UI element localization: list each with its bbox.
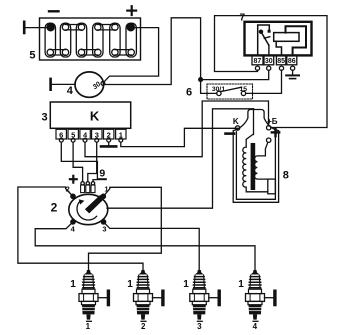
relay terminal circle 87 (255, 66, 259, 70)
svg-text:K: K (90, 109, 100, 124)
svg-text:85: 85 (277, 58, 285, 65)
distributor terminal dot 4 (71, 220, 75, 224)
svg-text:6: 6 (59, 130, 63, 139)
spark plug 3 (190, 270, 219, 321)
distributor pin middle (86, 182, 89, 185)
coil plus sign (272, 129, 279, 136)
wire ammeter left lead (52, 83, 76, 85)
K terminal circle 1 (119, 138, 123, 142)
coil secondary bottom box (268, 179, 276, 194)
wire relay 86 to ground (292, 70, 294, 75)
distributor terminal dot 2 (71, 194, 75, 198)
spark plug 2 (134, 270, 163, 321)
svg-text:30: 30 (265, 58, 273, 65)
relay blade arrow tick (264, 37, 270, 39)
distributor rotation arrow (77, 201, 97, 220)
plug ground bar (98, 297, 107, 299)
relay terminal box 87 (252, 55, 263, 64)
wire distributor terminal 1 to spark plug 1 (89, 187, 162, 269)
wire junction to switch 30/1 (201, 81, 217, 93)
K unit terminal box 2 (104, 129, 114, 139)
svg-text:1: 1 (238, 279, 244, 290)
switch blade (221, 87, 242, 91)
wire distributor terminal 2 to spark plug 2 (18, 187, 143, 270)
coil iron core (251, 143, 256, 190)
switch terminal 15 (241, 91, 245, 95)
relay 7 box (245, 22, 312, 56)
relay terminal circle 86 (291, 66, 295, 70)
coil HT center electrode (253, 109, 255, 135)
plug threads (82, 305, 95, 315)
coil terminal K circle (235, 126, 239, 130)
K terminal circle 5 (71, 138, 75, 142)
wire K terminal 6 to distributor pin (61, 142, 97, 182)
K unit terminal box 3 (92, 129, 102, 139)
relay terminal box 86 (287, 55, 297, 64)
coil terminal +B circle (267, 126, 271, 130)
ammeter left terminal bar (49, 79, 52, 90)
svg-text:87: 87 (254, 58, 262, 65)
wire K terminal 4 to coil +B (85, 101, 269, 157)
svg-text:7: 7 (240, 13, 246, 24)
connector 9 plus sign (70, 176, 77, 183)
K terminal circle 3 (95, 138, 99, 142)
K unit terminal box 1 (116, 129, 126, 139)
coil secondary winding (255, 142, 268, 179)
connector 9 underline (99, 178, 106, 180)
relay contact blade (261, 32, 269, 45)
ignition coil 8 (226, 109, 280, 203)
spark plug 1 (79, 270, 108, 321)
ignition switch 6 dashed box (207, 84, 253, 99)
switch terminal 30/1 (217, 91, 221, 95)
relay terminal box 85 (276, 55, 285, 64)
coil can inner wall (236, 132, 275, 200)
svg-text:2: 2 (51, 201, 58, 215)
relay coil to 85 wire (276, 41, 281, 54)
spark plug 4 (246, 270, 275, 321)
battery minus terminal dot (47, 24, 54, 31)
distributor 2 body (69, 194, 108, 224)
coil primary winding (243, 135, 268, 192)
plug shoulder (82, 289, 95, 293)
svg-text:5: 5 (29, 50, 35, 62)
K unit 3 box (50, 102, 130, 128)
plug electrode (86, 314, 90, 319)
relay fixed contact dot (268, 30, 271, 33)
relay pivot contact dot (259, 30, 262, 33)
wire distributor terminal 4 to spark plug 4 (35, 222, 255, 271)
plug lower shell (82, 301, 96, 304)
svg-text:6: 6 (186, 87, 192, 99)
wire junction to relay 30 (202, 70, 268, 79)
relay coil U1 (274, 33, 299, 42)
relay terminal circle 85 (279, 66, 283, 70)
svg-text:3: 3 (95, 130, 99, 139)
svg-text:9: 9 (99, 168, 105, 180)
relay terminal circle 30 (267, 66, 271, 70)
wire switch 15 to relay 85 (246, 70, 282, 93)
battery minus sign (49, 10, 59, 12)
ground below K terminal 2 (101, 145, 116, 148)
K terminal circle 4 (83, 138, 87, 142)
ammeter terminal circle (101, 82, 105, 86)
wire distributor terminal 3 to spark plug 3 (104, 222, 200, 270)
svg-text:4: 4 (67, 85, 74, 97)
K terminal circle 6 (59, 138, 63, 142)
battery 5 cells (45, 23, 136, 57)
svg-text:K: K (233, 117, 239, 126)
wire battery minus lead (25, 27, 52, 29)
svg-text:1: 1 (183, 279, 189, 290)
wire battery plus to ammeter (104, 28, 158, 82)
coil can outline (233, 110, 278, 203)
svg-text:2: 2 (141, 322, 146, 331)
distributor terminal dot 1 (101, 194, 105, 198)
svg-text:1: 1 (104, 185, 108, 194)
K unit terminal box 6 (56, 129, 66, 139)
coil minus sign (226, 132, 235, 135)
node junction A (199, 78, 203, 82)
wire relay 87 to coil +B top route (215, 16, 328, 128)
K unit terminal box 5 (68, 129, 78, 139)
svg-text:1: 1 (127, 279, 133, 290)
svg-text:3: 3 (41, 112, 47, 124)
K terminal circle 2 (107, 138, 111, 142)
svg-text:1: 1 (86, 322, 91, 331)
distributor terminal dot 3 (101, 220, 105, 224)
svg-text:2: 2 (107, 130, 111, 139)
svg-text:4: 4 (253, 322, 258, 331)
relay inner frame to 86 (286, 26, 307, 54)
relay terminal box 30 (264, 55, 274, 64)
svg-text:15: 15 (240, 86, 248, 93)
wire K terminal 5 to distributor pin (73, 142, 83, 182)
coil secondary terminal circle (267, 138, 271, 142)
svg-text:3: 3 (102, 225, 106, 234)
svg-text:8: 8 (283, 170, 289, 182)
wire K terminal 1 to coil K (121, 128, 238, 146)
svg-text:86: 86 (288, 58, 296, 65)
wire ammeter to top route (105, 18, 201, 85)
plug hex body (79, 294, 98, 302)
battery plus terminal dot (127, 24, 134, 31)
battery 5 box (40, 18, 141, 60)
relay contact 30 stub (268, 45, 270, 54)
ammeter 4 (75, 72, 104, 97)
svg-text:1: 1 (70, 279, 76, 290)
wire K terminal 2 to ground (108, 142, 110, 145)
distributor pin right (91, 182, 94, 185)
K unit terminal box 4 (80, 129, 90, 139)
svg-text:1: 1 (119, 130, 123, 139)
distributor pin left (81, 182, 84, 185)
battery negative lead terminal bar (23, 22, 26, 33)
ground below relay 86 (286, 74, 299, 76)
battery plus sign (127, 6, 136, 15)
relay contact 87 frame (258, 25, 270, 55)
svg-text:5: 5 (71, 130, 75, 139)
svg-text:+Б: +Б (267, 117, 278, 126)
wire K terminal 3 to distributor pin (88, 142, 97, 182)
svg-text:30/1: 30/1 (212, 86, 225, 93)
svg-text:2: 2 (66, 185, 70, 194)
distributor rotor (85, 195, 104, 214)
wire coil HT to distributor (107, 109, 254, 208)
svg-text:3: 3 (197, 322, 202, 331)
